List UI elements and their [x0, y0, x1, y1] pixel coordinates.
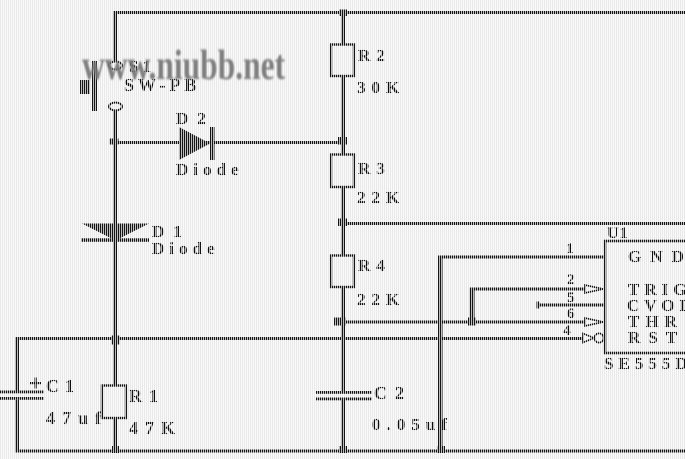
label R2 — [358, 47, 391, 64]
diode D1 cathode bar — [81, 238, 149, 242]
value 30K — [357, 79, 405, 96]
pin number 5 — [567, 291, 575, 306]
node: junction right end of D2 wire — [338, 137, 347, 145]
wire: horizontal D2 wire from switch branch to middle branch — [115, 141, 343, 144]
wire: THR line from middle branch to U1 — [334, 321, 585, 324]
wire: R1 to bottom rail — [113, 418, 117, 451]
capacitor C1 top plate — [0, 391, 44, 394]
node: junction left end of D2 wire — [110, 139, 119, 145]
wire: GND pin line from U1 to left vertical — [438, 256, 605, 259]
wire: bottom ground rail — [15, 450, 685, 453]
wire: middle branch rail-to-R2 — [341, 13, 345, 45]
pin 2 arrow into U1 — [585, 285, 603, 293]
wire: discharge line to right edge — [343, 222, 685, 225]
pin number 6 — [567, 307, 575, 322]
label Diode for D2 — [176, 161, 244, 178]
pin name TRIG — [628, 281, 685, 298]
node: junction of middle branch and THR line — [334, 318, 346, 326]
op-amp U1 555 timer body — [605, 241, 685, 353]
label C2 — [374, 384, 412, 402]
capacitor C2 bottom plate — [316, 398, 372, 401]
label C1 — [46, 377, 80, 395]
pin name THR — [628, 313, 683, 330]
value 47uf — [46, 409, 108, 427]
node: junction C2 at bottom rail — [339, 446, 347, 453]
diode D1 triangle — [82, 224, 149, 241]
watermark www.niubb.net — [82, 45, 285, 87]
node: junction of TRIG link and THR line — [468, 318, 476, 326]
label D1 — [152, 223, 191, 240]
node: junction of middle branch and discharge line — [338, 219, 347, 227]
switch S1 button bar — [80, 80, 90, 94]
wire: C2 to bottom rail — [341, 400, 345, 451]
pin 6 arrow into U1 — [585, 318, 603, 326]
wire: left branch C1 to bottom rail — [15, 400, 19, 451]
wire: middle branch R3-to-R4 — [341, 187, 345, 256]
label S1 — [129, 58, 155, 75]
node: CVOLT line end tick — [537, 302, 540, 309]
value 47K — [129, 419, 182, 437]
wire: RST line from left branch to U1 — [16, 337, 583, 340]
pin name GND — [628, 248, 685, 265]
label R1 — [129, 387, 165, 405]
label R3 — [358, 160, 391, 177]
value 22K for R3 — [357, 189, 405, 206]
diode D2 cathode bar — [210, 127, 215, 160]
node: junction GND vertical at bottom rail — [437, 446, 445, 453]
diode D2 triangle — [179, 127, 210, 160]
label R4 — [358, 257, 391, 274]
resistor R3 body — [331, 155, 354, 188]
node: junction R1 at bottom rail — [112, 446, 119, 453]
wire: TRIG pin line — [470, 288, 585, 291]
pin name CVOLT — [627, 297, 685, 314]
label U1 — [607, 226, 629, 242]
wire: left branch down from RST line to C1 — [15, 337, 19, 391]
capacitor C1 bottom plate — [0, 397, 44, 400]
wire: middle branch R4-to-C2 — [341, 287, 345, 392]
pin name RST — [628, 329, 685, 346]
label D2 — [176, 110, 215, 127]
node: junction of top rail and R2 branch — [339, 10, 347, 17]
wire: R1 branch from RST junction down to R1 — [113, 337, 117, 385]
pin 4 arrow into U1 — [583, 334, 594, 343]
wire: switch bottom down through D1 to RST line — [113, 111, 117, 338]
label SE555D — [604, 355, 685, 372]
pin number 1 — [566, 242, 574, 257]
capacitor C1 plus sign — [30, 378, 41, 389]
value 22K for R4 — [357, 291, 405, 308]
wire: drop from top rail to switch S1 — [113, 11, 117, 62]
pin 4 inversion bubble — [594, 333, 603, 342]
label Diode for D1 — [152, 240, 220, 257]
resistor R2 body — [331, 45, 354, 77]
wire: GND vertical down to bottom rail — [438, 256, 443, 452]
capacitor C2 top plate — [316, 391, 372, 394]
wire: TRIG-to-THR vertical link — [470, 288, 475, 322]
pin number 2 — [567, 273, 575, 288]
label SW-PB — [124, 76, 200, 94]
pin number 4 — [563, 324, 571, 339]
wire: CVOLT pin line — [537, 304, 605, 307]
switch S1 pole bar — [92, 61, 97, 111]
wire: middle branch R2-to-R3 — [341, 76, 345, 155]
resistor R1 body — [102, 386, 126, 419]
switch S1 top terminal — [109, 62, 122, 70]
resistor R4 body — [331, 256, 354, 288]
node: junction of RST line and switch/D1 branch — [112, 336, 120, 345]
wire: top VCC rail — [113, 11, 685, 14]
value 0.05uF — [372, 416, 453, 433]
switch S1 bottom terminal — [109, 103, 122, 111]
